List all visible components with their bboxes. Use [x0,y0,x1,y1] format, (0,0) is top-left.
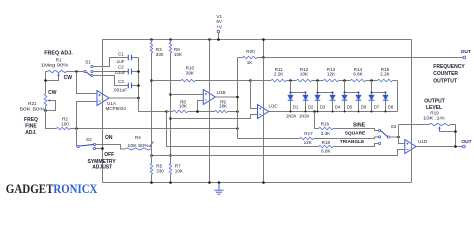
node U1B-ground [208,181,211,184]
resistor R21 potentiometer [44,94,51,107]
node V1-rail junction [217,38,220,41]
wire R4 right to chain [150,148,151,150]
svg-text:OUT: OUT [461,139,471,145]
wire U1A power vertical [102,40,104,183]
resistor R16 3.3K [319,122,333,137]
svg-text:2.2K: 2.2K [274,71,284,76]
label FREQ FINE ADJ. [24,117,38,136]
wire U1A+ down to S2 [76,129,78,147]
diode D2 [303,93,309,112]
diode D4 [330,93,336,112]
label SYMMETRY ADJUST [88,159,117,171]
svg-text:C2: C2 [118,65,124,70]
wire sine to S3 [333,129,378,131]
svg-text:18K: 18K [219,104,228,109]
node sine takeoff [313,110,316,113]
wire frequency counter out line [264,57,464,59]
label D3 [320,104,326,109]
wire ON to R4 [96,145,125,150]
svg-text:C1: C1 [118,51,124,56]
svg-text:12K: 12K [327,71,336,76]
resistor R6 10K [169,40,183,57]
wire diode pair line 7-8 [372,92,386,94]
node R1-S1-U1A junction [75,70,78,73]
wire S1 throw1 to C1 [93,58,126,67]
svg-text:FREQ: FREQ [24,117,38,123]
node pair junction D3 [317,92,319,94]
node R8-R9-U1B- junction [196,110,199,113]
node ladder tap 7 [370,79,373,82]
svg-text:D1: D1 [293,104,299,109]
svg-text:OUT: OUT [461,49,471,55]
resistor R20 1K [238,49,264,65]
diode D1 [288,93,294,112]
svg-text:U1C: U1C [269,104,279,109]
svg-text:COUNTER: COUNTER [433,71,458,77]
svg-text:ADJUST: ADJUST [92,165,112,171]
svg-text:R16: R16 [321,122,330,127]
diode D3 [315,93,321,112]
label OUT (top) [461,49,471,55]
wire R1 right to S1 pole node [67,71,85,73]
resistor R2 100 [57,116,71,129]
resistor R9 18K [215,99,228,112]
node U1A + tap [75,127,78,130]
svg-text:1Meg 90%: 1Meg 90% [41,63,69,68]
svg-text:OFF: OFF [104,152,114,158]
node C2 bus junction [137,70,140,73]
diode D7 [369,93,375,112]
svg-text:10K: 10K [175,169,184,174]
node R1 wiper junction [44,79,47,82]
capacitor C3 .001uF [113,79,139,92]
svg-text:MCP6024: MCP6024 [106,106,127,111]
node R5-ground [150,181,153,184]
resistor R13 12K [323,67,338,82]
wire R19 wiper [440,131,456,133]
svg-text:R4: R4 [135,135,141,140]
wire R21 bottom to R2 line [46,106,57,129]
wire U1C - input [251,81,258,109]
wire U1A output [109,97,139,99]
svg-text:C3: C3 [118,79,124,84]
svg-text:TRIANGLE: TRIANGLE [340,139,365,145]
wire tap 7 down [371,81,373,93]
resistor R1 potentiometer 1Meg 90% [41,57,69,78]
svg-text:39K: 39K [186,70,195,75]
svg-text:330: 330 [156,52,164,57]
svg-text:S2: S2 [86,137,92,142]
svg-text:12K: 12K [304,140,313,145]
svg-text:+V: +V [216,25,223,30]
label CW (R1) [64,75,73,81]
resistor R4 potentiometer 10K 50% [125,135,153,150]
label R21 50K 50% [20,101,45,111]
svg-text:1K: 1K [247,60,254,65]
node D2 output junction [305,111,307,113]
label OFF [104,152,114,158]
label D6 [361,104,367,109]
svg-text:2.2K: 2.2K [380,71,390,76]
resistor R17 12K [300,131,314,145]
switch S2 [77,143,96,149]
resistor R19 potentiometer 10K .1% [399,111,451,132]
node R19 wiper junction [454,130,457,133]
wire U1C + input [171,115,258,119]
node R3-R10 tee [150,79,153,82]
node ladder tap 1 [289,79,292,82]
label ON [105,135,113,141]
wire U1A - input [77,72,98,94]
svg-text:R1: R1 [56,57,62,62]
svg-text:1N34: 1N34 [299,113,310,118]
svg-text:FREQ ADJ.: FREQ ADJ. [44,51,73,57]
node U1A output junction [137,97,140,100]
wire R8 line segment [167,111,173,113]
wire R8 to R9 [188,111,215,113]
wire R2 line to square node [70,128,238,130]
diode D6 [356,93,362,112]
node pair junction D5 [344,92,346,94]
node R9-square junction [236,110,239,113]
node rail-U1C drop [262,38,265,41]
wire S1 throw3 to C3 [93,76,126,86]
resistor R11 2.2K [271,67,286,82]
label SQUARE [345,131,366,137]
label 1N34 (D2) [299,113,310,118]
label FREQ ADJ. [44,51,73,57]
resistor R14 6.8K [350,67,365,82]
node D5 output junction [344,111,346,113]
node pair junction D4 [332,92,334,94]
wire S2 pole [76,146,79,148]
wire S1 throw2 to C2 [93,71,126,73]
wire S3 pole out [389,136,398,138]
terminal OUT (signal) [463,145,466,148]
svg-text:FREQUENCY: FREQUENCY [433,64,465,70]
wire square node vertical [237,58,239,139]
wire R1 left down to R21 [46,72,48,94]
node pair junction D6 [358,92,360,94]
svg-text:6.8K: 6.8K [321,148,331,153]
wire ladder segments [251,80,398,82]
wire capacitor bus [138,58,140,99]
wire U1B - input from R8/R9 [198,101,204,112]
wire R6 divider down [170,53,172,156]
terminal OUT (frequency counter) [463,56,466,59]
svg-text:OUTPTUT: OUTPTUT [433,78,457,84]
wire U1C output line [269,111,398,113]
wire U1D + input [152,150,405,156]
svg-text:S1: S1 [85,60,91,65]
label D1 [293,104,299,109]
wire triangle to S3 [333,144,378,147]
resistor R15 2.2K [377,67,392,82]
node divider-ref [169,154,172,157]
label OUTPUT LEVEL [424,98,445,111]
node pair junction D1 [290,92,292,94]
svg-text:ON: ON [105,135,113,141]
wire R1 wiper loop [46,78,59,80]
label S1 [85,60,91,65]
svg-text:FINE: FINE [25,124,37,130]
svg-text:.1uF: .1uF [115,59,124,64]
wire R19 right end [450,125,455,147]
wire U1A + input [77,102,98,129]
wire tap 1 down [290,81,292,93]
label CW (R21) [48,90,57,96]
label D2 [308,104,314,109]
node ladder tap 3 [316,79,319,82]
svg-text:100: 100 [61,122,69,127]
resistor R3 330 [150,40,164,57]
wire triangle line left [167,112,319,147]
wire R21 wiper loop [46,101,56,111]
ground [214,183,223,195]
svg-text:U1B: U1B [217,90,226,95]
svg-text:OUTPUT: OUTPUT [424,98,445,104]
svg-text:D4: D4 [335,104,341,109]
wire diode pair line 5-6 [345,92,359,94]
wire tap 3 down [317,81,319,93]
wire tap 5 down [344,81,346,93]
resistor R8 10K [173,99,188,112]
svg-text:S3: S3 [391,124,397,129]
svg-text:R20: R20 [246,49,255,54]
svg-text:R18: R18 [322,140,331,145]
resistor R12 10K [296,67,311,82]
node R7-ground [169,181,172,184]
svg-text:R17: R17 [304,131,313,136]
svg-text:3.3K: 3.3K [321,131,331,136]
node D3 output junction [317,111,319,113]
svg-text:10K: 10K [174,52,183,57]
label S3 [391,124,397,129]
svg-text:RONICX: RONICX [53,182,97,196]
wire ladder right wrap [397,81,399,112]
resistor R18 6.8K [319,140,333,154]
svg-text:10K: 10K [179,104,188,109]
wire sine line [315,112,319,129]
power source V1 5V [216,14,223,39]
node U1B out tee [236,96,239,99]
node U1C-ground [262,181,265,184]
node square-R2 junction [236,127,239,130]
diode D5 [342,93,348,112]
svg-text:SQUARE: SQUARE [345,131,366,137]
node ladder tap 5 [343,79,346,82]
label TRIANGLE [340,139,365,145]
op-amp U1B [203,90,225,105]
wire U1A out down to R8 line [139,98,167,112]
svg-text:D5: D5 [347,104,353,109]
svg-text:.001uF: .001uF [113,88,127,93]
label FREQUENCY COUNTER OUTPTUT [433,64,465,84]
svg-text:10K .1%: 10K .1% [423,116,445,121]
node triangle takeoff [165,110,168,113]
capacitor C1 .1uF [115,51,138,64]
capacitor C2 .01uF [114,65,138,76]
resistor R5 330 [150,142,164,183]
diode D8 [383,93,389,112]
wire diode pair line 3-4 [318,92,333,94]
node ground stub [218,181,221,184]
svg-text:SINE: SINE [353,122,366,128]
node R21 wiper junction [44,109,47,112]
svg-text:D8: D8 [388,104,394,109]
node C3 bus junction [137,84,140,87]
logo GADGETRONICX [6,182,98,196]
svg-text:GADGET: GADGET [6,182,54,196]
node rail-U1B [208,38,211,41]
node rail-R3 [150,38,153,41]
svg-text:10K 50%: 10K 50% [127,143,149,148]
label D4 [335,104,341,109]
wire ground rail [103,182,412,184]
node rail-R6 [169,38,172,41]
label OUT (bottom) [461,139,471,145]
node D7 output junction [371,111,373,113]
svg-text:.01uF: .01uF [114,70,126,75]
resistor R7 10K [169,156,184,183]
node S3-R19 junction [397,136,400,139]
svg-text:5V: 5V [216,19,223,24]
node OFF-ground junction [101,147,104,150]
label S2 [86,137,92,142]
svg-text:D3: D3 [320,104,326,109]
svg-text:D2: D2 [308,104,314,109]
wire rail right drop / U1D power [411,40,413,183]
node pair junction D8 [385,92,387,94]
node divider-U1C+ [169,117,172,120]
wire U1D - input [399,125,405,144]
node U1C- tap [249,79,252,82]
label D7 [374,104,380,109]
node D6 output junction [358,111,360,113]
wire +5V top rail [103,39,412,41]
svg-text:1N34: 1N34 [286,113,297,118]
node pair junction D2 [305,92,307,94]
wire U1B power vertical [209,40,211,183]
node R19-output junction [454,145,457,148]
svg-text:330: 330 [156,169,164,174]
wire square to S3 [313,137,378,139]
svg-text:10K: 10K [300,71,309,76]
wire U1B output [215,96,237,98]
wire diode pair line 1-2 [291,92,306,94]
node divider-U1B+ [169,93,172,96]
wire OFF to ground line [96,148,103,150]
resistor R10 39K [152,66,251,82]
svg-text:50K 50%: 50K 50% [20,107,45,112]
svg-text:D7: D7 [374,104,380,109]
node R20-out junction [262,56,265,59]
wire U1C power vertical [263,58,265,183]
svg-text:CW: CW [64,75,73,81]
svg-text:CW: CW [48,90,57,96]
node D1 output junction [290,111,292,113]
node D4 output junction [332,111,334,113]
op-amp U1D [405,139,428,154]
wire rail drop to R20/OUT [263,40,265,58]
label D5 [347,104,353,109]
wire R9 right to square vertical [228,111,238,113]
svg-text:D6: D6 [361,104,367,109]
wire R3 chain down [151,53,153,142]
wire U1B + input from divider [171,94,204,96]
wire U1D output [416,146,463,148]
label D8 [388,104,394,109]
label SINE [353,122,366,128]
switch S3 [379,129,390,144]
op-amp U1A MCP6024 [97,91,126,112]
svg-text:R21: R21 [28,101,37,106]
node pair junction D7 [371,92,373,94]
svg-text:ADJ.: ADJ. [25,130,37,136]
node ref-R5 junction [150,154,153,157]
label 1N34 (D1) [286,113,297,118]
svg-text:6.8K: 6.8K [353,71,363,76]
switch S1 [84,65,93,76]
op-amp U1C [258,104,279,119]
svg-text:U1D: U1D [418,139,428,144]
node D8 output junction [385,111,387,113]
wire square line left [238,138,300,140]
